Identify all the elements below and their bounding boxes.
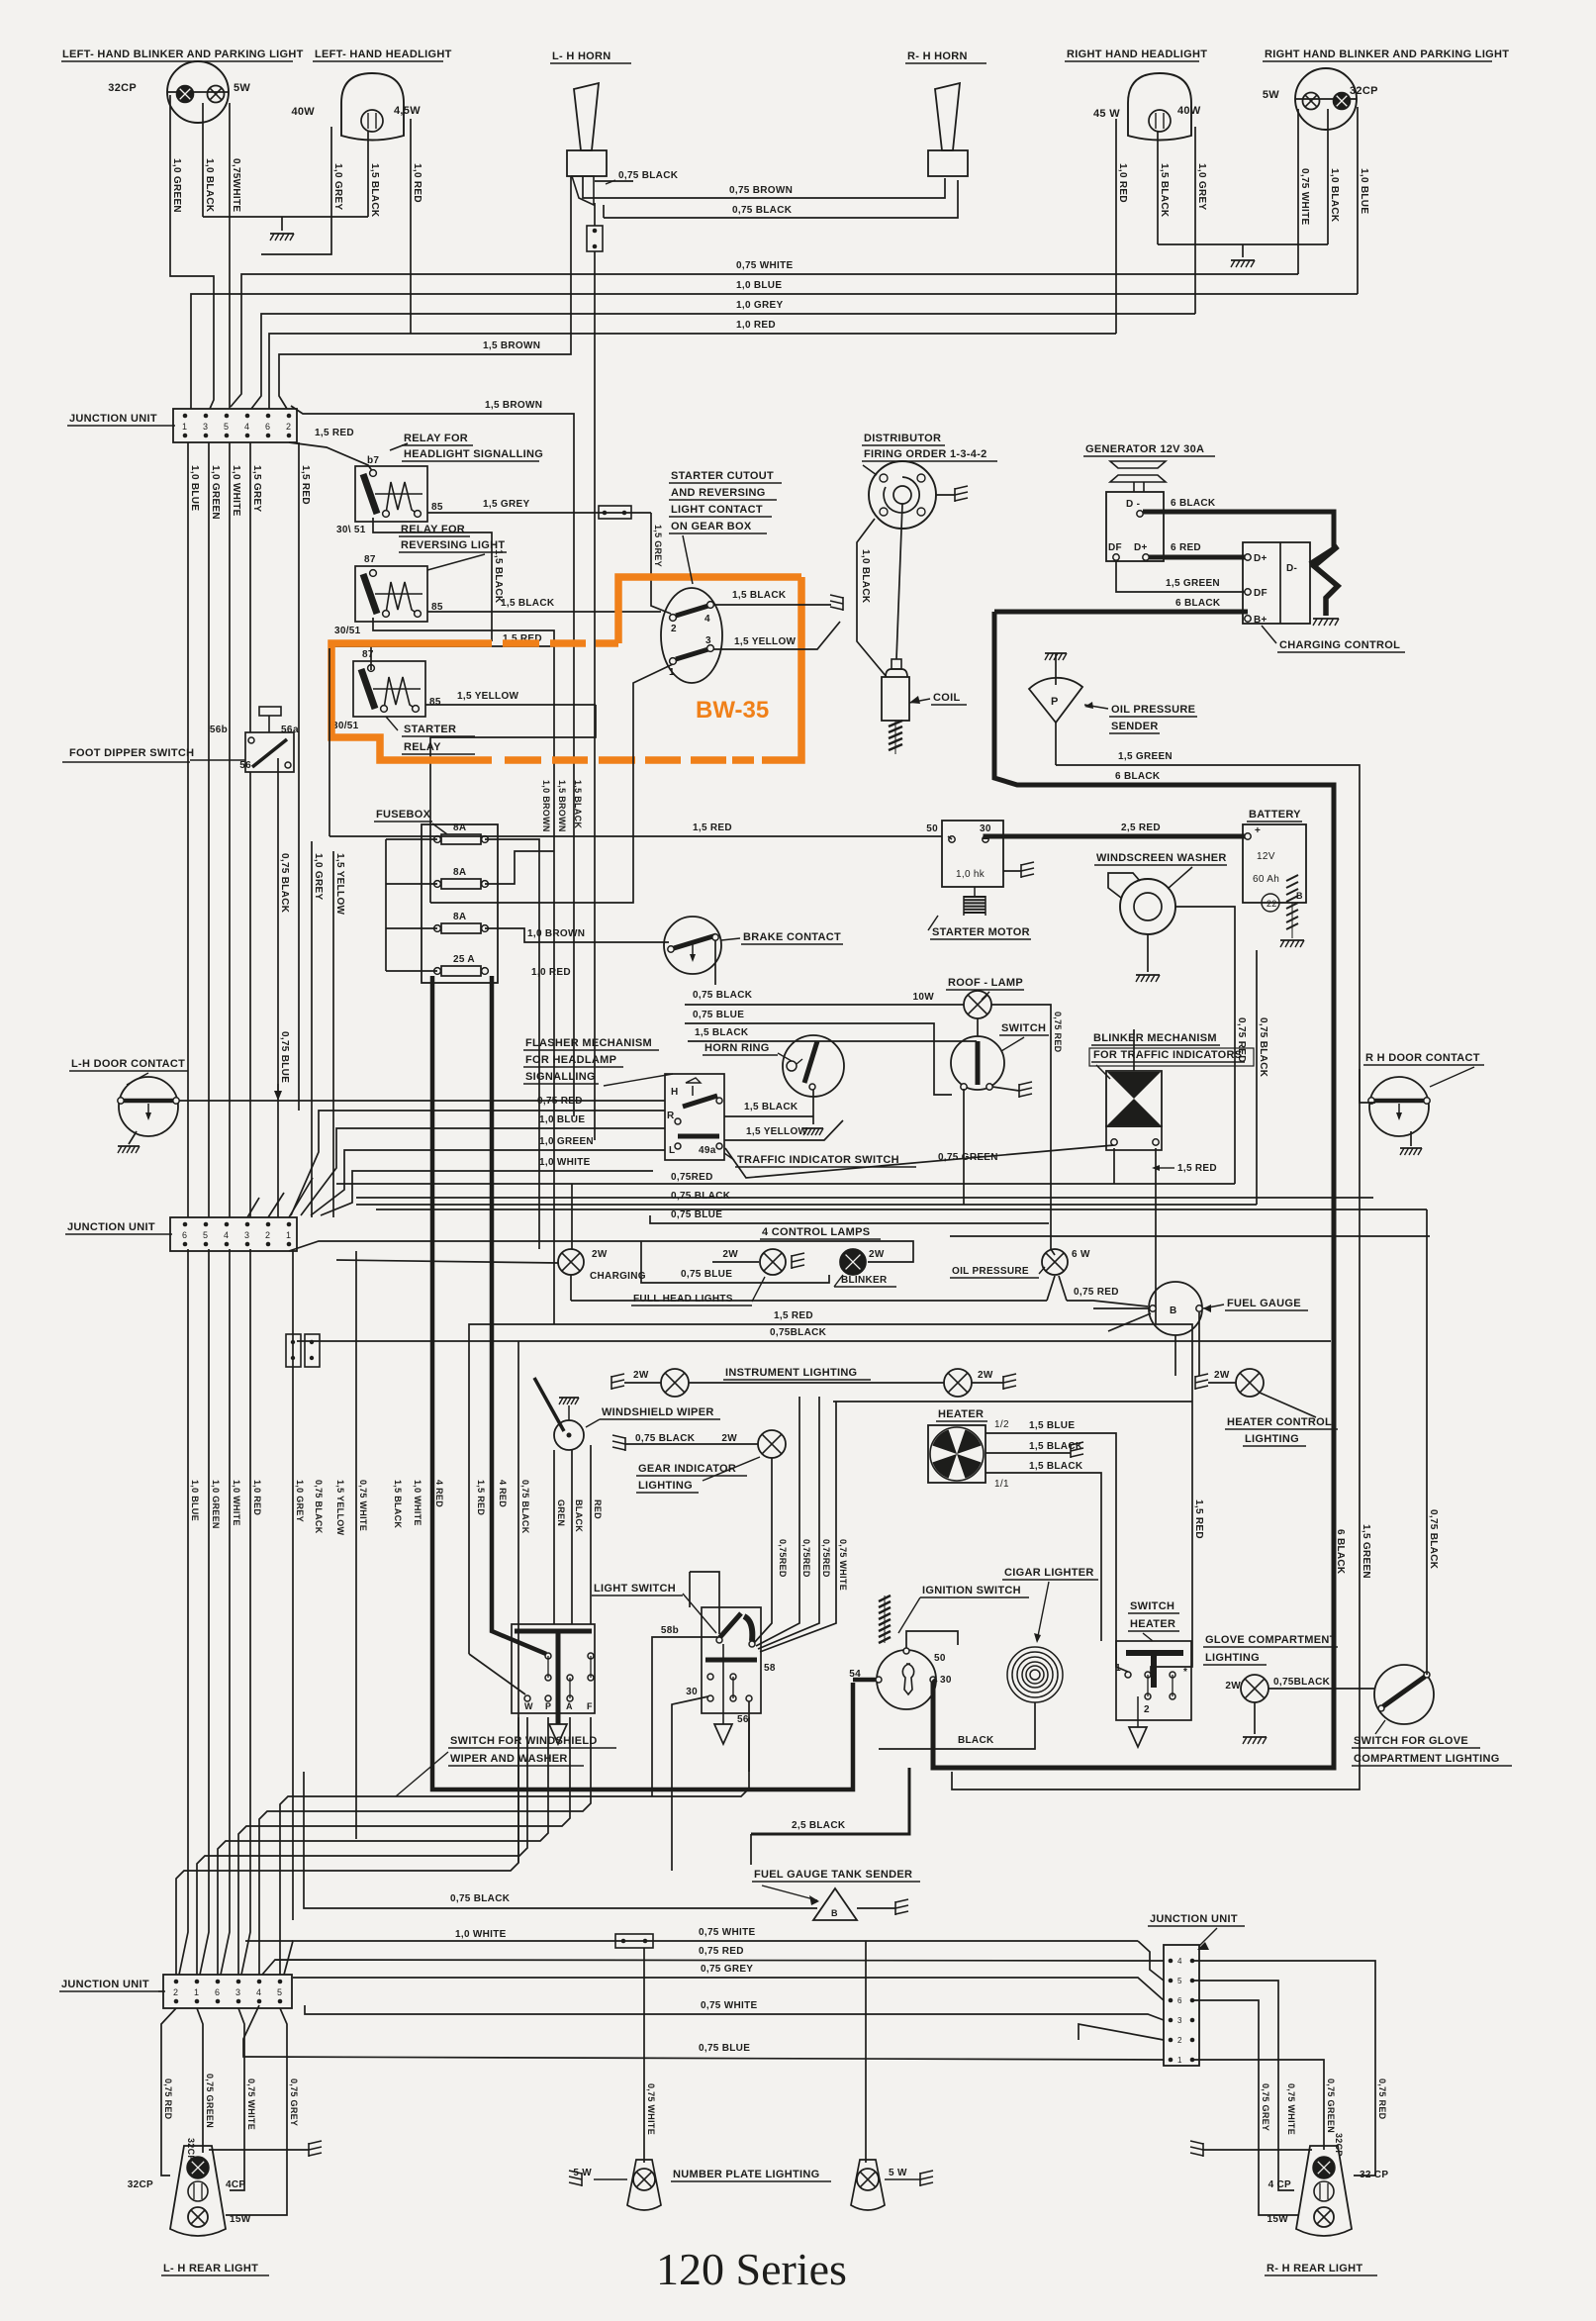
L-H rear light ground [209,2149,309,2151]
washer ground [1147,934,1149,972]
svg-text:HEADLIGHT SIGNALLING: HEADLIGHT SIGNALLING [404,448,543,460]
svg-text:6 BLACK: 6 BLACK [1115,771,1161,782]
svg-text:1/2: 1/2 [994,1419,1009,1430]
svg-text:0,75 BLUE: 0,75 BLUE [279,1031,290,1083]
wire 0.75 BLUE [685,1023,952,1095]
svg-text:RELAY FOR: RELAY FOR [404,433,468,444]
svg-text:B: B [1170,1306,1177,1316]
thick wire 6 BLACK down-loop [933,612,1334,1768]
contact bar pins 1-3 [676,649,708,659]
svg-text:1,0 GREY: 1,0 GREY [313,853,324,900]
wire 0.75 BLACK mid column [517,1341,519,1863]
svg-text:HEATER: HEATER [1130,1618,1175,1630]
svg-text:0,75 BLACK: 0,75 BLACK [279,853,290,914]
svg-text:RELAY FOR: RELAY FOR [401,524,465,535]
horn L-H symbol [574,83,599,150]
charging control box [1243,542,1310,624]
junction4 left jog [1079,2024,1164,2040]
wire 1.0 RED main bus [269,334,1116,409]
svg-text:1,0 RED: 1,0 RED [252,1480,262,1515]
svg-text:GREN: GREN [556,1499,566,1526]
wire 0.75 GREEN rear [197,2008,203,2153]
svg-text:FOOT DIPPER SWITCH: FOOT DIPPER SWITCH [69,747,194,759]
wire 0.75 BLUE control [641,1241,829,1283]
wire grey down to gearbox contact [651,513,671,614]
label oil pressure sender [1084,705,1108,709]
wire 1.0 BLACK from parking lamp to ground bus [202,103,204,217]
junction 4 wires right [1192,1961,1375,2176]
starter motor brushes hatched [964,896,986,898]
fuse 25A [434,968,441,975]
svg-text:0,75 WHITE: 0,75 WHITE [646,2083,656,2135]
svg-text:1,0 RED: 1,0 RED [531,967,571,978]
wire 1.5 GREY left bus [249,442,251,732]
svg-text:0,75 RED: 0,75 RED [1377,2079,1387,2120]
horn ring ground [803,1127,823,1129]
wire 0.75 BLACK glove switch up [1426,1209,1428,1675]
svg-text:RIGHT HAND BLINKER AND PARKING: RIGHT HAND BLINKER AND PARKING LIGHT [1265,48,1509,60]
svg-text:NUMBER PLATE LIGHTING: NUMBER PLATE LIGHTING [673,2169,819,2180]
svg-text:1,5 YELLOW: 1,5 YELLOW [734,636,797,647]
svg-text:0,75 BLUE: 0,75 BLUE [681,1269,732,1280]
ignition cable hatched [889,721,902,726]
svg-text:2W: 2W [1214,1370,1230,1381]
svg-text:P: P [1051,696,1059,708]
wire door contact bus [178,1100,665,1102]
svg-text:1,5 BROWN: 1,5 BROWN [557,780,567,832]
wire 1.0 BLACK distributor to coil [857,519,887,677]
svg-text:1,5 BLACK: 1,5 BLACK [369,163,380,218]
wire 1.5 YELLOW flasher [724,1120,843,1140]
svg-text:JUNCTION UNIT: JUNCTION UNIT [61,1979,149,1990]
wire 0.75 BLUE bottom [243,2005,1164,2060]
oil pressure lamp [1042,1249,1068,1275]
fuse 8A no3 [434,925,441,932]
wire number plate right drop [865,1941,867,2163]
wire 1.5 BLACK from R-H headlight [1157,132,1159,244]
wire light switch 58b up [690,1572,719,1634]
R-H rear light ground [1203,2149,1312,2151]
wiper switch pins [524,1695,530,1701]
svg-text:0,75 WHITE: 0,75 WHITE [838,1539,848,1591]
svg-text:BLACK: BLACK [958,1735,994,1746]
svg-text:FOR TRAFFIC INDICATORS: FOR TRAFFIC INDICATORS [1093,1049,1242,1061]
wire 58b left down [652,1637,717,1796]
bottom junction bundle wires [280,1717,749,1975]
starter motor ground [1003,870,1021,872]
svg-text:SWITCH FOR WINDSHIELD: SWITCH FOR WINDSHIELD [450,1735,598,1747]
svg-text:4 RED: 4 RED [498,1480,508,1507]
wire 1.5 RED blinker [1155,1148,1157,1324]
svg-text:5: 5 [1177,1977,1182,1985]
ground charging control [1313,618,1339,620]
svg-text:0,75 WHITE: 0,75 WHITE [701,2000,757,2011]
svg-text:FUEL GAUGE: FUEL GAUGE [1227,1298,1301,1309]
wire 1.0 GREY from R-H headlight [1194,127,1196,314]
blinker control lamp [841,1250,865,1274]
svg-text:0,75 BLACK: 0,75 BLACK [1428,1509,1439,1570]
wire 1.5 YELLOW starter relay 85 [425,704,596,706]
svg-text:4: 4 [704,614,710,625]
ground battery [1280,939,1304,941]
L-H door contact symbol [119,1077,178,1136]
svg-text:FUEL GAUGE TANK SENDER: FUEL GAUGE TANK SENDER [754,1869,912,1881]
wire 0.75 RED right vertical [1234,1023,1236,1025]
svg-text:1,0 WHITE: 1,0 WHITE [455,1929,507,1940]
svg-text:2,5 RED: 2,5 RED [1121,822,1161,833]
wire 1.5 BROWN upper [279,176,571,409]
svg-text:1,5 BLACK: 1,5 BLACK [501,598,555,609]
wire from fuse1 right [485,839,539,1249]
svg-text:FULL HEAD LIGHTS: FULL HEAD LIGHTS [633,1294,733,1305]
svg-text:87: 87 [362,649,374,660]
wire 1.0 BROWN from fuse3 [485,928,669,942]
svg-text:ON GEAR BOX: ON GEAR BOX [671,521,752,532]
svg-text:1,5 BLACK: 1,5 BLACK [493,549,504,604]
svg-text:0,75 BLACK: 0,75 BLACK [314,1480,324,1534]
wire into wiper switch W [469,1654,525,1694]
svg-text:32CP: 32CP [1350,85,1378,97]
svg-text:0,75RED: 0,75RED [778,1539,788,1578]
inline connector left bus 2 [305,1334,320,1367]
instrument lighting lamp 1 [611,1374,624,1377]
svg-text:1: 1 [1115,1663,1121,1674]
wire 50 terminal [948,836,952,839]
light switch pins [707,1674,713,1680]
svg-text:LEFT- HAND BLINKER AND PARKING: LEFT- HAND BLINKER AND PARKING LIGHT [62,48,304,60]
svg-text:5: 5 [277,1987,282,1997]
wire light switch 30 down [672,1696,708,1871]
svg-text:1,5 RED: 1,5 RED [476,1480,486,1515]
svg-text:5W: 5W [1263,89,1279,101]
svg-text:0,75BLACK: 0,75BLACK [770,1327,827,1338]
svg-text:JUNCTION UNIT: JUNCTION UNIT [69,413,157,425]
svg-text:1,0 GREEN: 1,0 GREEN [171,158,182,213]
wire 0.75 WHITE rear [230,2008,244,2190]
svg-text:IGNITION SWITCH: IGNITION SWITCH [922,1585,1021,1596]
svg-text:4 RED: 4 RED [434,1480,444,1507]
svg-text:2: 2 [1144,1704,1150,1715]
svg-text:1,0 BLUE: 1,0 BLUE [190,1480,200,1521]
svg-text:DF: DF [1254,588,1267,599]
wire 56 down [748,1701,750,1772]
svg-text:1,5 YELLOW: 1,5 YELLOW [334,853,345,916]
svg-text:40W: 40W [291,106,315,118]
wire 1.5 GREY relay1-85 [427,512,651,514]
svg-text:SENDER: SENDER [1111,721,1159,732]
wire 1.5 BLACK from headlight to ground bus [367,132,369,217]
svg-text:GENERATOR 12V 30A: GENERATOR 12V 30A [1085,443,1204,455]
svg-text:30: 30 [980,823,991,834]
svg-text:15W: 15W [1267,2214,1289,2225]
wire 0.75 BLACK mid-left vertical [277,758,279,1217]
svg-text:BATTERY: BATTERY [1249,809,1301,821]
wire 0.75 RED into flasher [291,1111,665,1215]
fuse 8A no1 [434,836,441,843]
svg-text:6: 6 [265,422,270,432]
svg-text:1,0 WHITE: 1,0 WHITE [413,1480,422,1526]
light switch stem arrow [722,1644,724,1724]
svg-text:LEFT- HAND HEADLIGHT: LEFT- HAND HEADLIGHT [315,48,452,60]
svg-text:0,75 RED: 0,75 RED [163,2079,173,2120]
wire washer to right [1175,907,1235,1184]
svg-text:B: B [831,1908,838,1918]
wiper wires down [553,1450,555,1624]
svg-text:OIL PRESSURE: OIL PRESSURE [1111,704,1195,716]
wire oil pressure sender down [1055,723,1057,765]
svg-text:1,0 GREEN: 1,0 GREEN [211,1480,221,1529]
roof lamp [964,991,991,1018]
thick wire charging control D- zigzag to ground [1310,546,1338,616]
thick wire 2.5 RED from starter 30 [986,836,1113,839]
wire sender to ground [857,1907,895,1909]
svg-text:1,0 BROWN: 1,0 BROWN [541,780,551,832]
generator box [1106,492,1164,561]
svg-text:0,75 GREY: 0,75 GREY [701,1964,753,1975]
wire ignition 50 [906,1631,958,1648]
svg-text:1,5 BLACK: 1,5 BLACK [1159,163,1170,218]
svg-text:32CP: 32CP [108,82,137,94]
svg-text:LIGHT CONTACT: LIGHT CONTACT [671,504,763,516]
svg-text:1,0 GREY: 1,0 GREY [1196,163,1207,210]
svg-text:0,75 GREEN: 0,75 GREEN [1326,2079,1336,2133]
wire 1.5 RED to starter relay [329,645,554,647]
wire 1.5 BLUE heater [986,1433,1128,1672]
ignition switch symbol [877,1650,936,1709]
wire 0.75 RED rear [161,2008,176,2176]
svg-text:0,75 BLACK: 0,75 BLACK [618,170,679,181]
svg-text:2W: 2W [721,1433,737,1444]
svg-text:WINDSCREEN WASHER: WINDSCREEN WASHER [1096,852,1227,864]
svg-text:a: a [293,725,299,735]
svg-text:1,5 GREY: 1,5 GREY [251,465,262,512]
svg-text:10W: 10W [913,992,935,1003]
headlight L-H symbol [341,73,404,141]
svg-text:3: 3 [235,1987,240,1997]
svg-text:0,75 WHITE: 0,75 WHITE [1286,2083,1296,2135]
thick wire ignition 30 [933,1680,936,1683]
svg-text:1,0 hk: 1,0 hk [956,869,986,880]
svg-text:0,75 WHITE: 0,75 WHITE [246,2079,256,2130]
svg-text:0,75 WHITE: 0,75 WHITE [358,1480,368,1531]
svg-text:0,75 GREEN: 0,75 GREEN [205,2074,215,2128]
wire 1.0 GREY mid-left vertical [311,841,313,1217]
L-H rear light symbol [170,2146,226,2236]
heater switch box [1116,1641,1191,1720]
svg-text:1,5 BLACK: 1,5 BLACK [744,1102,798,1112]
inline connector left bus 1 [286,1334,301,1367]
svg-text:4,5W: 4,5W [394,105,421,117]
relay 3 starter relay [353,661,425,717]
svg-text:FIRING ORDER 1-3-4-2: FIRING ORDER 1-3-4-2 [864,448,987,460]
wire 0.75 WHITE R-H blinker [1297,109,1299,274]
svg-text:1,5 BLACK: 1,5 BLACK [573,780,583,828]
svg-text:2W: 2W [1225,1681,1241,1692]
thick wire 2.5 RED to battery [1113,834,1245,839]
wire relay2 30/51 down then right [373,618,554,1324]
wire 1.5 BLACK flasher [724,1115,813,1117]
svg-text:1,0 BLACK: 1,0 BLACK [860,549,871,604]
svg-text:CHARGING CONTROL: CHARGING CONTROL [1279,639,1400,651]
brake contact symbol [664,917,721,974]
svg-text:49a: 49a [699,1145,716,1156]
svg-text:ROOF - LAMP: ROOF - LAMP [948,977,1023,989]
junction unit 2 [170,1217,297,1251]
contact bar pins 2-4 [676,606,708,616]
thick wire 6 BLACK generator D- [1143,512,1334,550]
label traffic indicator switch [724,1153,734,1160]
wire 0.75 WHITE bottom 2 [305,2005,1164,2020]
wire 1.5 GREEN generator DF [1116,560,1245,592]
ground symbol right lamps [1231,259,1255,261]
wire cigar lighter down [879,1702,1035,1749]
thick wire 4 RED from 25A fuse left [432,976,853,1789]
wire 1.5 BLACK relay2-85 to gearbox contact [427,611,661,613]
svg-text:COIL: COIL [933,692,960,704]
wire 1.5 BLACK gearbox to ground [713,604,831,606]
svg-text:58: 58 [764,1663,776,1674]
svg-text:0,75 GREY: 0,75 GREY [289,2079,299,2126]
fuel gauge symbol [1149,1282,1202,1335]
svg-text:HORN RING: HORN RING [704,1042,770,1054]
svg-text:1,0 RED: 1,0 RED [736,320,776,331]
svg-text:TRAFFIC INDICATOR SWITCH: TRAFFIC INDICATOR SWITCH [737,1154,899,1166]
svg-text:FOR HEADLAMP: FOR HEADLAMP [525,1054,616,1066]
svg-text:BW-35: BW-35 [696,697,769,724]
inline connector on horn wire [594,203,596,226]
label brake contact [721,938,740,940]
wire 0.75 BLACK roof lamp [685,1004,964,1006]
svg-text:6: 6 [182,1230,187,1240]
svg-text:30\ 51: 30\ 51 [336,525,366,535]
svg-text:BLINKER: BLINKER [841,1275,888,1286]
svg-text:56: 56 [281,725,293,735]
wire 1.0 RED from R-H headlight [1115,119,1117,334]
svg-text:6 BLACK: 6 BLACK [1175,598,1221,609]
svg-text:1,0 RED: 1,0 RED [1117,163,1128,203]
svg-text:H: H [671,1087,679,1098]
svg-text:STARTER CUTOUT: STARTER CUTOUT [671,470,774,482]
svg-text:1,5 GREEN: 1,5 GREEN [1118,751,1173,762]
svg-text:2: 2 [1177,2036,1182,2045]
svg-text:0,75BLACK: 0,75BLACK [1273,1677,1331,1688]
svg-text:WIPER AND WASHER: WIPER AND WASHER [450,1753,568,1765]
svg-text:0,75 BLUE: 0,75 BLUE [699,2043,750,2054]
horn ring symbol [783,1035,844,1097]
wire 0.75 WHITE below junction2 [355,1251,357,1839]
svg-text:1,5 BLUE: 1,5 BLUE [1029,1420,1075,1431]
wire 0.75 GREY bottom [293,1978,1164,2000]
svg-text:1,5 RED: 1,5 RED [315,428,354,438]
lamp R-H blinker and parking light [1295,68,1357,130]
svg-text:1,0 BLUE: 1,0 BLUE [539,1114,585,1125]
wire 1.0 GREY from headlight [261,127,331,254]
glove lamp ground [1254,1702,1256,1734]
svg-text:40W: 40W [1177,105,1201,117]
svg-text:1,5 RED: 1,5 RED [774,1310,813,1321]
roof lamp switch [951,1036,1004,1090]
gear indicator lamp [612,1435,625,1438]
svg-text:2W: 2W [633,1370,649,1381]
junction 2 fan-in wires [289,1178,313,1217]
distributor symbol [869,461,936,529]
ground bus right lamps [1158,243,1328,245]
svg-text:12V: 12V [1257,851,1275,862]
svg-text:30: 30 [686,1687,698,1697]
svg-text:0,75 WHITE: 0,75 WHITE [699,1927,755,1938]
foot dipper switch [245,732,294,772]
svg-text:0,75 BLUE: 0,75 BLUE [671,1209,722,1220]
svg-text:LIGHTING: LIGHTING [638,1480,693,1492]
svg-text:SWITCH: SWITCH [1130,1600,1174,1612]
svg-text:1,0 WHITE: 1,0 WHITE [231,465,241,517]
wire 0.75 WHITE to number plate lamp [643,1948,645,2163]
svg-text:1,0 WHITE: 1,0 WHITE [232,1480,241,1526]
svg-text:STARTER MOTOR: STARTER MOTOR [932,926,1030,938]
wiper switch bar [515,1629,592,1634]
wire brake contact right down [714,940,716,985]
svg-text:BLACK: BLACK [574,1499,584,1532]
svg-text:5 W: 5 W [889,2168,907,2178]
svg-text:1,5 RED: 1,5 RED [693,822,732,833]
wire 1.5 RED long to starter [329,648,330,836]
charging control lamp [336,1260,558,1263]
relay 2 reversing light [355,566,427,622]
svg-text:D+: D+ [1134,542,1148,553]
svg-text:120 Series: 120 Series [656,2244,847,2294]
svg-text:STARTER: STARTER [404,724,456,735]
svg-text:1,5 RED: 1,5 RED [1193,1499,1204,1539]
svg-text:8A: 8A [453,867,466,878]
svg-text:1,0 GREEN: 1,0 GREEN [539,1136,594,1147]
svg-text:6 BLACK: 6 BLACK [1335,1529,1346,1575]
thick wire 2.5 BLACK [751,1768,909,1834]
label starter motor [928,916,938,930]
svg-text:FUSEBOX: FUSEBOX [376,809,431,821]
svg-text:0,75 BLACK: 0,75 BLACK [671,1191,731,1202]
wire roof lamp right to oil lamp [991,1005,1055,1255]
heater switch pins [1125,1672,1131,1678]
svg-text:1,0 GREY: 1,0 GREY [295,1480,305,1522]
light switch box [702,1607,761,1713]
wire 1.0 WHITE lower [321,1171,653,1215]
instrument lighting lamp 2 [944,1369,972,1397]
horn R-H symbol [935,83,960,150]
label coil [909,699,930,703]
svg-text:1,5 BROWN: 1,5 BROWN [485,400,542,411]
wire 0.75 GREY rear [226,2008,287,2215]
svg-text:3: 3 [203,422,208,432]
label starter relay [386,717,398,730]
svg-text:0,75 GREY: 0,75 GREY [1261,2083,1270,2131]
wire 1.0 GREEN from parking lamp [170,95,214,409]
svg-text:1,5 BROWN: 1,5 BROWN [483,340,540,351]
thick wire 4 RED from 25A fuse right [492,976,546,1654]
wire right horizontals [356,1197,1373,1199]
svg-text:2: 2 [286,422,291,432]
relay 1 headlight signalling [355,466,427,522]
wire 0.75 BROWN L-horn to R-horn [583,176,945,198]
wire 1.0 GREY below junction2 [292,1251,294,1920]
R-H door contact symbol [1369,1077,1429,1136]
svg-text:LIGHT SWITCH: LIGHT SWITCH [594,1583,676,1595]
svg-text:30: 30 [940,1675,952,1686]
svg-text:2: 2 [265,1230,270,1240]
svg-text:D -: D - [1126,499,1140,510]
full head lights lamp [712,1261,759,1263]
svg-text:1,5 RED: 1,5 RED [1177,1163,1217,1174]
svg-text:R- H REAR LIGHT: R- H REAR LIGHT [1267,2263,1362,2274]
